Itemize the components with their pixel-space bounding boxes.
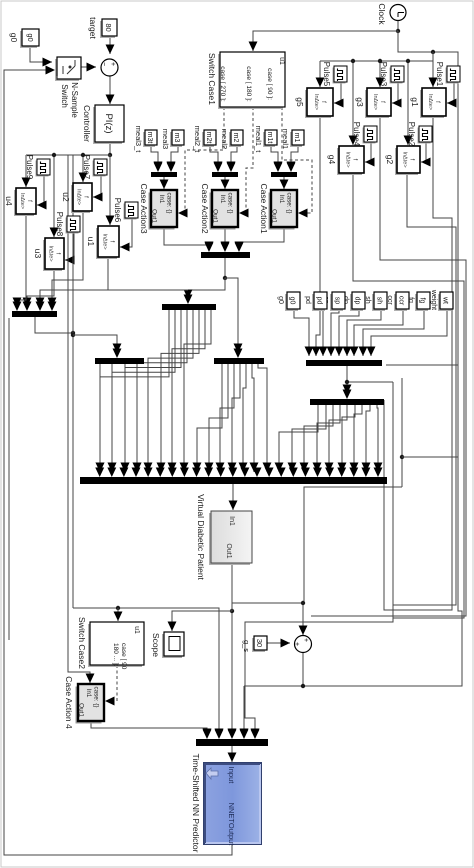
node clock tap g-bus xyxy=(431,50,435,54)
svg-text:InΔte>: InΔte> xyxy=(102,233,108,249)
block g4 xyxy=(337,148,362,175)
wire m3 to meal bar xyxy=(171,145,178,171)
svg-text:InΔte>: InΔte> xyxy=(19,193,25,209)
svg-text:+: + xyxy=(302,638,309,642)
wire VDP out to NN mux xyxy=(231,563,233,738)
svg-text:Input: Input xyxy=(227,767,236,785)
svg-text:wt: wt xyxy=(442,296,449,304)
dashed action to CA2 xyxy=(244,107,253,213)
constant 30 xyxy=(252,638,265,652)
wire pulse7 to u2 xyxy=(93,176,101,197)
mux bar A xyxy=(201,252,250,258)
wire meal bar to CA2 xyxy=(224,177,226,189)
svg-text:m3: m3 xyxy=(173,133,180,143)
wire mux B out xyxy=(35,317,73,333)
svg-text:80: 80 xyxy=(104,23,113,31)
wire g5 to mux F xyxy=(316,116,320,356)
svg-text:case: {}: case: {} xyxy=(286,192,293,213)
constant g0 xyxy=(285,294,298,311)
wire to u2 in xyxy=(82,155,84,182)
wire to g5 in xyxy=(319,61,321,87)
wire to scope xyxy=(172,611,232,631)
svg-text:meal3: meal3 xyxy=(161,129,170,149)
constant sp xyxy=(330,294,343,311)
wire glucose to sum2 xyxy=(232,603,303,635)
wire to g3 in xyxy=(379,61,381,87)
svg-text:pd: pd xyxy=(316,297,323,305)
Pulse2 xyxy=(418,128,431,144)
wire mux H to VDP xyxy=(232,484,234,510)
svg-text:+: + xyxy=(109,62,116,66)
wire g0 to switch xyxy=(30,46,52,62)
wire to NN mux row2 xyxy=(243,686,245,738)
wire CA3 to mux A xyxy=(164,227,209,251)
svg-text:Scope: Scope xyxy=(151,633,161,657)
svg-text:InΔte>: InΔte> xyxy=(48,245,54,261)
wire target to sum1 xyxy=(109,36,111,54)
svg-text:Pulse4: Pulse4 xyxy=(352,122,361,147)
Time-Shifted NN Predictor block xyxy=(204,763,261,844)
wire g2 top lane xyxy=(393,174,456,605)
svg-text:case [ 270 ]:: case [ 270 ]: xyxy=(219,66,226,102)
Case Action1 block xyxy=(269,193,295,230)
svg-text:u1: u1 xyxy=(133,626,140,634)
svg-text:Pulse3: Pulse3 xyxy=(379,62,388,87)
wire to g4 in xyxy=(352,61,354,145)
wire bundle demux G to mux H xyxy=(377,405,378,472)
svg-text:InΔte>: InΔte> xyxy=(427,94,433,110)
demux bar D xyxy=(95,358,144,364)
svg-text:fg: fg xyxy=(419,298,426,304)
wire u4 to mux B xyxy=(17,214,26,307)
svg-text:case: {}: case: {} xyxy=(227,192,234,213)
wire g1 top lane xyxy=(384,116,452,610)
svg-text:Case Action3: Case Action3 xyxy=(139,183,149,233)
block m3 xyxy=(170,132,182,147)
svg-text:Pulse2: Pulse2 xyxy=(407,122,416,147)
svg-text:m1: m1 xyxy=(293,133,300,143)
svg-text:Out1: Out1 xyxy=(225,543,232,558)
svg-text:Controller: Controller xyxy=(82,105,92,142)
constant sh xyxy=(372,294,385,311)
svg-text:Pulse7: Pulse7 xyxy=(82,155,91,180)
arrows into big mux H xyxy=(374,468,383,478)
wire to g1 in xyxy=(432,61,434,87)
dashed action to CA4 xyxy=(112,665,117,701)
mux bar meal3 xyxy=(151,172,177,177)
svg-text:Out1: Out1 xyxy=(78,703,85,717)
wire pulse8 to u3 xyxy=(65,233,74,260)
svg-text:g5: g5 xyxy=(295,97,305,107)
wire u-line to NN mux row xyxy=(73,608,219,738)
svg-text:−: − xyxy=(100,62,107,66)
Pulse6 xyxy=(124,204,137,220)
NN predictor arrow icon xyxy=(206,768,218,779)
svg-text:case [ 90 ]:: case [ 90 ]: xyxy=(266,68,273,100)
Pulse9 xyxy=(36,161,49,177)
svg-text:InΔte>: InΔte> xyxy=(313,94,319,110)
wire pulse6 to u1 xyxy=(120,219,132,247)
svg-text:case [ 180 ]:: case [ 180 ]: xyxy=(245,66,252,102)
wire pulse2 to g2 xyxy=(421,142,426,162)
block m2 xyxy=(229,132,241,147)
svg-text:target: target xyxy=(88,17,98,39)
constant fg xyxy=(415,294,428,311)
svg-text:u1: u1 xyxy=(86,237,96,247)
wire CA4 to NN mux xyxy=(91,722,207,738)
node clock branch xyxy=(396,29,400,33)
Switch Case2 block xyxy=(88,624,142,667)
block g1 xyxy=(420,90,444,118)
block m2t xyxy=(202,132,214,147)
wire u-line L2 to CaseAction4 xyxy=(68,155,90,683)
svg-text:Switch: Switch xyxy=(60,84,69,108)
svg-text:In1: In1 xyxy=(219,195,226,204)
node mux F out branch xyxy=(345,380,349,384)
block g2 xyxy=(395,148,418,175)
svg-text:In1: In1 xyxy=(278,195,285,204)
svg-text:sh: sh xyxy=(376,297,383,305)
svg-text:Clock: Clock xyxy=(377,3,387,25)
wire mux A out xyxy=(224,258,226,278)
wire bundle demux C to mux H xyxy=(184,310,211,472)
block m1 xyxy=(290,132,302,147)
svg-text:sp: sp xyxy=(334,297,341,305)
svg-text:Out1: Out1 xyxy=(212,209,219,223)
block g3 xyxy=(365,90,389,118)
wire g3 top lane xyxy=(311,116,466,616)
svg-text:g3: g3 xyxy=(355,97,365,107)
svg-text:g0: g0 xyxy=(277,296,284,304)
svg-text:Out1: Out1 xyxy=(151,209,158,223)
wire u into SwitchCase2 xyxy=(117,608,119,621)
svg-text:pd: pd xyxy=(304,296,311,304)
svg-text:weight: weight xyxy=(430,289,437,310)
node u-line to SwitchCase2 xyxy=(116,606,120,610)
svg-text:g2: g2 xyxy=(385,155,395,165)
constant ccr xyxy=(394,294,407,311)
svg-text:g_s: g_s xyxy=(242,640,251,652)
Pulse3 xyxy=(390,68,403,84)
svg-text:Switch Case1: Switch Case1 xyxy=(207,53,217,105)
constant dp xyxy=(350,294,363,311)
wire u2 to mux B xyxy=(52,211,83,307)
wire PI out xyxy=(109,142,111,155)
wire lower bus xyxy=(8,318,10,640)
Pulse5 xyxy=(333,68,346,84)
svg-text:g0: g0 xyxy=(9,33,19,43)
PI(z) Controller block xyxy=(93,107,122,144)
wire to u1 in xyxy=(109,155,111,225)
wire lane to mux F out node xyxy=(347,381,393,383)
wire NN mux to predictor xyxy=(231,746,233,762)
Pulse4 xyxy=(363,128,376,144)
svg-text:Time-Shifted NN Predictor: Time-Shifted NN Predictor xyxy=(191,754,201,853)
node glucose junction xyxy=(301,601,305,605)
wire CA2 to mux A xyxy=(224,227,226,251)
svg-text:u4: u4 xyxy=(4,196,14,206)
demux bar C xyxy=(162,304,216,310)
wire u3 to mux B xyxy=(27,269,54,307)
wire m2 to meal bar xyxy=(231,145,237,171)
Scope block xyxy=(162,634,182,658)
svg-text:Switch Case2: Switch Case2 xyxy=(77,617,87,669)
svg-text:m1t: m1t xyxy=(266,132,273,144)
wire lane81 to NN mux row1 xyxy=(245,382,393,738)
wire m2t to meal bar xyxy=(210,145,218,171)
sum2 block xyxy=(295,636,312,653)
svg-text:In1: In1 xyxy=(85,689,92,698)
constant g0 xyxy=(20,31,37,48)
wire pulse3 to g3 xyxy=(392,82,398,103)
wire pulse1 to g1 xyxy=(447,82,454,103)
svg-text:case [ 90: case [ 90 xyxy=(120,643,127,670)
wire u-line L1 xyxy=(72,155,74,608)
wire sum2 out xyxy=(302,652,304,686)
demux bar E xyxy=(214,358,264,364)
wire pulse5 to g5 xyxy=(334,82,341,103)
demux bar G xyxy=(310,399,384,405)
NN input mux xyxy=(196,739,268,746)
wire NNETOutput feedback xyxy=(4,70,232,855)
wire g input bus xyxy=(320,52,433,61)
svg-text:InΔte>: InΔte> xyxy=(345,151,351,167)
wire mux F to demux G xyxy=(346,366,348,394)
wire lane72 xyxy=(401,378,403,487)
svg-text:meal3_t: meal3_t xyxy=(134,126,143,154)
svg-text:InΔte>: InΔte> xyxy=(76,189,82,205)
svg-text:m3t: m3t xyxy=(146,132,153,144)
block u4 xyxy=(14,190,34,216)
Case Action3 block xyxy=(149,193,175,230)
wire sum1 to PI xyxy=(109,76,111,104)
block m3t xyxy=(143,132,155,147)
wire u-line riser to demux C xyxy=(70,289,188,291)
svg-text:Case Action 4: Case Action 4 xyxy=(64,676,74,729)
svg-text:m2: m2 xyxy=(232,133,239,143)
node sum2 join xyxy=(301,684,305,688)
clock block xyxy=(390,5,406,21)
Pulse7 xyxy=(93,161,106,177)
svg-text:case: {}: case: {} xyxy=(166,192,173,213)
svg-text:g0: g0 xyxy=(26,33,35,41)
node lane junction xyxy=(400,455,404,459)
wire to demux E in xyxy=(225,278,238,353)
svg-text:u1: u1 xyxy=(278,57,285,65)
svg-text:Out1: Out1 xyxy=(271,209,278,223)
wire lane riser xyxy=(402,456,458,458)
constant wt xyxy=(438,294,451,311)
block u1 xyxy=(96,228,117,259)
big mux H xyxy=(80,477,387,484)
Pulse8 xyxy=(66,218,79,234)
svg-text:InΔte>: InΔte> xyxy=(372,94,378,110)
wire bundle demux D to mux H xyxy=(136,364,138,472)
Case Action2 block xyxy=(210,193,236,230)
svg-text:g4: g4 xyxy=(327,155,337,165)
svg-text:30: 30 xyxy=(255,639,264,647)
wire clock output xyxy=(397,21,399,32)
svg-text:case: {}: case: {} xyxy=(93,686,100,707)
svg-text:u2: u2 xyxy=(61,192,71,202)
mux bar meal1 xyxy=(271,172,297,177)
dashed action to CA1 xyxy=(282,107,312,213)
dashed action to CA3 xyxy=(183,107,224,213)
svg-text:ccr: ccr xyxy=(398,296,405,306)
wire u1 to mux B xyxy=(40,257,108,307)
svg-text:Pulse6: Pulse6 xyxy=(113,198,122,223)
svg-text:Case Action2: Case Action2 xyxy=(200,183,210,233)
block m1t xyxy=(263,132,275,147)
wire pulse9 to u4 xyxy=(37,176,44,205)
svg-text:g1: g1 xyxy=(410,97,420,107)
wire clock along top xyxy=(244,31,462,686)
wire g4 top lane xyxy=(353,174,464,618)
wire pulse4 to g4 xyxy=(365,142,371,162)
wire to demux C in xyxy=(188,278,225,299)
wire to u3 in xyxy=(53,155,55,237)
node VDP out xyxy=(230,609,234,613)
wire PI bus vertical xyxy=(26,154,110,156)
wire m3t to meal bar xyxy=(151,145,158,171)
wire to g2 in xyxy=(407,61,409,145)
svg-text:In1: In1 xyxy=(228,516,235,526)
svg-text:Virtual Diabetic Patient: Virtual Diabetic Patient xyxy=(196,494,206,580)
N-Sample Switch block xyxy=(55,59,79,81)
wire g0 const to mux F xyxy=(294,309,309,356)
wire constants to mux F bundle xyxy=(371,309,447,356)
node mux A out xyxy=(223,276,227,280)
Pulse1 xyxy=(446,68,459,84)
mux bar B xyxy=(12,311,57,317)
block u2 xyxy=(71,185,90,213)
wire lane drop to mux F top xyxy=(386,364,458,366)
svg-text:Pulse5: Pulse5 xyxy=(322,62,331,87)
svg-text:NNETOutput: NNETOutput xyxy=(227,803,236,847)
svg-text:Pulse8: Pulse8 xyxy=(55,212,64,237)
sum1 block xyxy=(101,59,118,76)
svg-text:m2t: m2t xyxy=(205,132,212,144)
svg-text:180 ... ]:: 180 ... ]: xyxy=(112,643,119,667)
mux bar meal2 xyxy=(212,172,238,177)
svg-text:meal2: meal2 xyxy=(220,129,229,149)
svg-text:N-Sample: N-Sample xyxy=(70,82,79,118)
svg-text:Pulse1: Pulse1 xyxy=(435,62,444,87)
wire m1 to meal bar xyxy=(291,145,298,171)
Switch Case1 block xyxy=(218,54,283,109)
mux bar F xyxy=(306,360,382,366)
wire clock to SwitchCase1 u1 xyxy=(253,31,398,51)
block u3 xyxy=(43,240,62,271)
svg-text:meal2_t: meal2_t xyxy=(193,126,202,154)
svg-text:g0: g0 xyxy=(289,297,296,305)
node u-line junction xyxy=(71,331,75,335)
wire m1t to meal bar xyxy=(271,145,278,171)
constant pd xyxy=(312,294,325,311)
svg-text:In1: In1 xyxy=(158,195,165,204)
wire meal bar to CA3 xyxy=(163,177,165,189)
svg-text:meal1_t: meal1_t xyxy=(254,126,263,154)
wire lane drop to sum2 row xyxy=(304,487,402,603)
svg-text:meal1: meal1 xyxy=(281,129,290,149)
svg-text:PI(z): PI(z) xyxy=(103,113,114,133)
wire to u4 in xyxy=(25,155,27,187)
wire CA1 to mux A xyxy=(239,227,284,251)
Case Action 4 block xyxy=(76,687,102,724)
wire const 30 to sum2 xyxy=(267,642,290,644)
block g5 xyxy=(305,90,331,118)
constant 80 target xyxy=(100,21,115,38)
svg-text:InΔte>: InΔte> xyxy=(402,151,408,167)
node PI out xyxy=(108,153,112,157)
svg-text:+: + xyxy=(293,642,300,646)
svg-text:Pulse9: Pulse9 xyxy=(25,155,34,180)
svg-text:Case Action1: Case Action1 xyxy=(259,183,269,233)
wire switch out to sum1 xyxy=(81,66,96,68)
wire meal bar to CA1 xyxy=(283,177,285,189)
wire u-line to demux D in xyxy=(73,335,117,353)
wire bundle demux E to mux H xyxy=(258,364,267,472)
svg-text:dp: dp xyxy=(354,297,361,305)
svg-text:u3: u3 xyxy=(33,249,43,259)
